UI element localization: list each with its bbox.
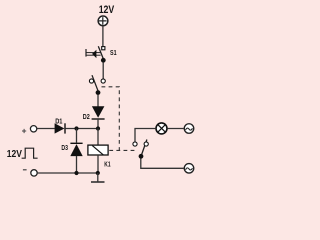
node junction D2/K1 xyxy=(96,126,100,130)
node D3 bottom xyxy=(74,171,78,175)
svg-text:S1: S1 xyxy=(110,48,117,57)
node junction D3 branch xyxy=(74,126,78,130)
AC source bottom xyxy=(184,164,194,174)
bottom rail wire xyxy=(37,172,98,174)
minus sign input xyxy=(23,169,27,171)
mechanical linkage dashed K1a to K1 coil xyxy=(102,87,120,151)
diode D2 xyxy=(92,106,105,119)
wire node to relay coil xyxy=(97,129,99,145)
supply terminal circle with plus xyxy=(98,16,108,26)
wire D3 to bottom rail xyxy=(76,156,78,173)
node ground junction xyxy=(96,171,100,175)
plus sign input xyxy=(22,129,26,133)
AC source top xyxy=(184,124,194,134)
svg-text:K1: K1 xyxy=(104,160,110,169)
pulse waveform symbol xyxy=(22,148,38,158)
svg-text:D3: D3 xyxy=(61,143,68,152)
relay contact K1b xyxy=(133,140,148,159)
svg-text:12V: 12V xyxy=(99,4,115,16)
diode D3 xyxy=(70,143,82,156)
wire coil to bottom rail xyxy=(97,156,99,173)
diode D1 xyxy=(55,123,65,133)
svg-text:12V: 12V xyxy=(7,149,22,160)
ground xyxy=(91,173,105,182)
wire contact K1b to lamp xyxy=(135,129,155,142)
wire D1 to node D2 junction xyxy=(66,128,99,130)
switch S1 pushbutton xyxy=(86,46,106,62)
lamp xyxy=(156,123,167,134)
relay contact K1a xyxy=(89,75,105,95)
input minus terminal xyxy=(31,170,37,176)
wire contact K1a to D2 xyxy=(97,95,99,107)
wire lamp to AC source xyxy=(167,128,184,130)
wire D2 to node xyxy=(97,120,99,129)
svg-text:D1: D1 xyxy=(55,117,62,126)
wire terminal to D1 xyxy=(37,128,55,130)
wire S1 to contact K1a xyxy=(102,63,104,80)
relay coil K1 xyxy=(88,145,108,155)
wire node to D3 xyxy=(76,129,78,143)
input plus terminal xyxy=(30,126,36,132)
wire supply to S1 xyxy=(102,26,104,47)
wire contact K1b to AC source bottom xyxy=(141,159,184,169)
svg-text:D2: D2 xyxy=(83,112,90,121)
mechanical linkage dashed coil to K1b xyxy=(109,149,137,151)
